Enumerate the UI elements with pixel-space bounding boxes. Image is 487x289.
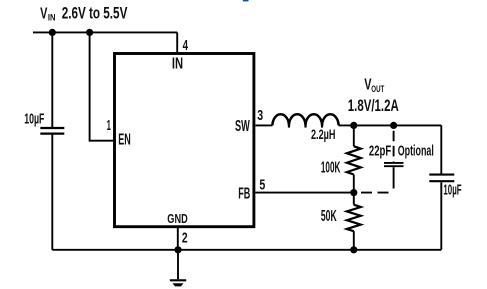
svg-text:IN: IN <box>48 12 56 23</box>
node: junction FB / R1 / R2 <box>350 189 357 196</box>
wire: inductor to output corner <box>339 124 442 126</box>
svg-text:3: 3 <box>257 107 263 123</box>
capacitor C2 22pF optional (dashed leads) <box>361 131 404 193</box>
svg-text:4: 4 <box>183 37 189 53</box>
blue mark (cropped text artifact at top) <box>243 0 249 1</box>
wire: pin 4 stub down to IC <box>176 32 178 53</box>
capacitor C1 10µF (input) <box>40 128 64 134</box>
svg-text:EN: EN <box>118 130 130 148</box>
IC U1 body <box>115 54 254 227</box>
wire: pin 2 stub <box>177 227 179 250</box>
svg-text:10µF: 10µF <box>443 182 461 198</box>
wire: SW pin lead <box>255 124 272 126</box>
wire: right rail down to C3 <box>440 125 442 173</box>
node VOUT label <box>348 76 399 116</box>
wire: C3 bottom lead to ground rail <box>440 182 442 250</box>
svg-text:2.2µH: 2.2µH <box>311 128 335 142</box>
wire: top input rail <box>33 31 177 33</box>
svg-text:V: V <box>364 76 371 93</box>
svg-text:50K: 50K <box>321 207 337 224</box>
svg-text:GND: GND <box>167 213 187 227</box>
svg-text:SW: SW <box>235 116 250 134</box>
resistor R1 100K <box>347 125 361 192</box>
svg-text:IN: IN <box>172 53 183 72</box>
svg-text:2: 2 <box>182 230 188 246</box>
wire: EN branch (down then right to pin 1) <box>90 32 114 140</box>
wire: bottom ground rail <box>52 249 441 251</box>
node: junction GND pin / rail <box>174 246 181 253</box>
svg-text:FB: FB <box>238 184 250 202</box>
wire: FB pin lead to divider node <box>255 192 353 194</box>
node: junction L1 / R1 <box>350 122 357 129</box>
capacitor C3 10µF (output) <box>429 175 454 182</box>
node: junction VIN / EN <box>86 29 93 36</box>
svg-text:OUT: OUT <box>371 84 384 95</box>
svg-text:10µF: 10µF <box>24 110 44 127</box>
node: junction VIN / C1 <box>49 29 56 36</box>
node VIN label <box>40 5 128 24</box>
node: junction C2 top <box>390 122 397 129</box>
svg-text:22pF: 22pF <box>369 143 392 160</box>
inductor L1 2.2µH <box>272 114 338 127</box>
resistor R2 50K <box>347 193 361 250</box>
svg-text:1.8V/1.2A: 1.8V/1.2A <box>348 97 399 116</box>
node: junction R2 / ground rail <box>350 246 357 253</box>
wire: C1 top lead <box>51 32 53 127</box>
svg-text:V: V <box>40 5 47 22</box>
svg-text:5: 5 <box>259 177 265 193</box>
svg-text:1: 1 <box>107 118 112 134</box>
svg-text:100K: 100K <box>321 159 341 176</box>
wire: C1 bottom lead down to ground rail <box>51 135 53 250</box>
svg-text:2.6V to 5.5V: 2.6V to 5.5V <box>62 5 128 23</box>
ground symbol <box>170 250 186 287</box>
svg-text:Optional: Optional <box>398 142 434 159</box>
